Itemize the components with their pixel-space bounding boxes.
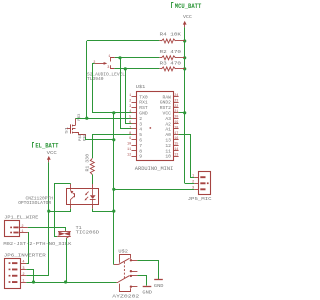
svg-text:OPTOISOLATOR: OPTOISOLATOR (18, 200, 51, 206)
svg-text:1: 1 (192, 175, 194, 179)
svg-text:TL3940: TL3940 (87, 76, 104, 82)
wire frame vertical (R4 net) (86, 41, 88, 118)
vcc symbol (MCU_BATT) (183, 21, 187, 27)
svg-text:3: 3 (107, 66, 109, 70)
svg-text:8: 8 (129, 132, 131, 136)
svg-text:A2: A2 (165, 121, 171, 127)
svg-text:4: 4 (129, 110, 131, 114)
label M02-JST-2-PTH-NO_SILK (3, 241, 71, 247)
svg-text:TX0: TX0 (139, 94, 148, 100)
wire bottom net (JP6 pin1 to switch) (26, 282, 116, 284)
svg-text:23: 23 (174, 99, 178, 103)
svg-text:2: 2 (93, 61, 95, 65)
svg-text:3: 3 (129, 105, 131, 109)
junction pot3/R3 net (124, 67, 127, 70)
svg-text:GND: GND (154, 283, 164, 289)
svg-text:P$1: P$1 (78, 134, 82, 141)
svg-text:RX1: RX1 (139, 100, 148, 106)
wire triac gate down (66, 238, 68, 282)
svg-text:R1 330: R1 330 (85, 154, 91, 172)
svg-text:RST2: RST2 (160, 105, 171, 111)
triac T1 TIC206D (57, 225, 99, 239)
svg-text:13: 13 (174, 153, 178, 157)
trimpot S2 AUDIO_LEVEL TL3940 (87, 55, 125, 82)
svg-text:R2 470: R2 470 (160, 49, 182, 55)
junction EL_BATT/opto-emitter (47, 210, 50, 213)
junction GND/mic (112, 188, 115, 191)
svg-text:JP1_EL_WIRE: JP1_EL_WIRE (4, 215, 38, 221)
svg-text:6: 6 (129, 121, 131, 125)
wire source to GND net (86, 137, 114, 140)
svg-text:4: 4 (22, 261, 24, 265)
svg-text:VCC: VCC (47, 150, 58, 156)
svg-text:21: 21 (174, 110, 178, 114)
wire VCC to U$1 VCC pin (179, 112, 185, 114)
svg-text:3: 3 (192, 187, 194, 191)
wire U$1 pin5 to R1 top (93, 135, 132, 159)
svg-text:3: 3 (22, 267, 24, 271)
svg-text:JP5_MIC: JP5_MIC (188, 196, 212, 202)
wire opto collector to triac MT1 (55, 184, 71, 237)
svg-text:9: 9 (129, 137, 131, 141)
svg-text:24: 24 (174, 94, 178, 98)
wire pot wiper (92, 63, 95, 65)
svg-text:A3: A3 (165, 116, 171, 122)
wire R4 left to frame (87, 40, 160, 42)
resistor R4 10K (159, 32, 184, 43)
JP6 pins (9, 261, 27, 284)
svg-text:RST: RST (139, 105, 148, 111)
wire pot pin1 net to U$1 pin 4 (121, 58, 132, 129)
resistor R3 470 (159, 61, 184, 71)
power flag VCC (EL) (47, 150, 58, 156)
svg-text:2: 2 (129, 99, 131, 103)
ground GND 1 (154, 280, 164, 290)
junction GND/opto-cathode (112, 210, 115, 213)
svg-text:2: 2 (192, 181, 194, 185)
junction VCC/R4 (183, 39, 186, 42)
wire opto emitter to EL_BATT (49, 209, 71, 212)
svg-text:VCC: VCC (183, 14, 192, 20)
junction GND/mosfet-source (112, 138, 115, 141)
svg-text:2: 2 (21, 225, 23, 229)
svg-text:7: 7 (139, 143, 142, 149)
wire R3 row (114, 68, 159, 70)
wire GND net to JP5 pin3 (114, 189, 195, 191)
svg-text:M02-JST-2-PTH-NO_SILK: M02-JST-2-PTH-NO_SILK (3, 241, 71, 247)
wire switch to GND 2 (137, 276, 146, 286)
wire U$1 A0 to JP5 pin1 (179, 135, 195, 178)
svg-text:A1: A1 (165, 127, 171, 133)
svg-text:15: 15 (174, 143, 178, 147)
pin opto anode stub (92, 184, 94, 188)
vcc symbol (EL_BATT) (47, 156, 51, 162)
net label MCU_BATT (172, 3, 202, 11)
svg-text:10: 10 (127, 143, 131, 147)
svg-text:19: 19 (174, 121, 178, 125)
wire VCC to JP5 pin2 (185, 183, 195, 185)
svg-text:12: 12 (165, 143, 171, 149)
junction VCC/R2 (183, 56, 186, 59)
svg-text:VCC: VCC (163, 111, 172, 117)
svg-text:GND2: GND2 (160, 100, 171, 106)
junction pin3/bottom wire (32, 280, 35, 283)
wire JP1 pin2 to triac MT2 (28, 228, 66, 231)
wire drain to U$1 pin 2 (76, 118, 132, 120)
svg-text:GND: GND (139, 111, 148, 117)
svg-text:8: 8 (139, 148, 142, 154)
connector JP6 INVERTER (4, 253, 46, 289)
svg-text:22: 22 (174, 105, 178, 109)
svg-text:7: 7 (129, 126, 131, 130)
pin opto emitter stub (70, 205, 72, 209)
wire GND net vertical (113, 113, 115, 265)
svg-text:18: 18 (174, 126, 178, 130)
resistor R2 470 (159, 49, 184, 60)
pin opto collector stub (70, 184, 72, 189)
svg-text:RAW: RAW (163, 94, 172, 100)
connector JP5 MIC (188, 172, 212, 203)
junction GND net top (112, 111, 115, 114)
wire EL_BATT to JP6 pin2 (26, 275, 49, 277)
svg-text:1: 1 (108, 55, 110, 59)
svg-text:P$3: P$3 (77, 114, 81, 121)
svg-text:11: 11 (127, 148, 131, 152)
ground GND 2 (142, 287, 152, 296)
connector JP1 EL_WIRE (4, 215, 38, 237)
svg-text:3: 3 (139, 121, 142, 127)
svg-text:20: 20 (174, 116, 178, 120)
svg-text:16: 16 (174, 137, 178, 141)
svg-text:U$1: U$1 (136, 84, 146, 90)
resistor R1 330 (85, 154, 95, 184)
svg-text:TIC206D: TIC206D (76, 230, 100, 236)
junction gate/bottom net (64, 280, 67, 283)
switch U$2 AYZ0202 (112, 249, 139, 300)
junction VCC/chip-VCC-pin (183, 111, 186, 114)
svg-text:R4 10K: R4 10K (160, 32, 182, 38)
transistor S1 (MOSFET) (66, 114, 87, 141)
svg-text:S1: S1 (66, 126, 70, 134)
svg-text:10: 10 (165, 154, 171, 160)
wire JP6 pin3 jog (26, 270, 33, 283)
svg-text:A0: A0 (165, 132, 171, 138)
optoisolator CNZ1120PTH (18, 188, 98, 206)
svg-text:2: 2 (139, 116, 142, 122)
svg-text:17: 17 (174, 132, 178, 136)
svg-text:9: 9 (139, 154, 142, 160)
junction drain/R4-frame (85, 117, 88, 120)
svg-text:GND: GND (142, 289, 152, 295)
svg-text:5: 5 (129, 116, 131, 120)
svg-text:EL_BATT: EL_BATT (35, 143, 58, 150)
wire VCC rail vertical (184, 27, 186, 183)
wire R1 bottom to opto anode (92, 183, 94, 186)
svg-text:R3 470: R3 470 (160, 61, 182, 67)
pin opto cathode stub (92, 205, 94, 209)
svg-text:U$2: U$2 (118, 249, 128, 255)
svg-text:2: 2 (22, 273, 24, 277)
svg-text:ARDUINO_MINI: ARDUINO_MINI (135, 166, 174, 172)
svg-text:12: 12 (127, 153, 131, 157)
svg-text:14: 14 (174, 148, 178, 152)
wire opto cathode to GND net (93, 209, 114, 212)
svg-text:MCU_BATT: MCU_BATT (175, 3, 202, 10)
power flag VCC (MCU) (183, 14, 192, 20)
svg-text:4: 4 (139, 127, 142, 133)
net label EL_BATT (33, 143, 59, 150)
svg-text:6: 6 (139, 138, 142, 144)
wire wiper down to GND row (93, 63, 132, 112)
wire pot pin3 net to U$1 pin 3 (126, 69, 132, 124)
wire EL_BATT vertical (48, 162, 50, 276)
wire R2 row (115, 57, 160, 59)
junction pot1/R2 net (118, 56, 121, 59)
svg-text:13: 13 (165, 138, 171, 144)
svg-text:AYZ0202: AYZ0202 (112, 294, 139, 300)
svg-text:1: 1 (129, 94, 131, 98)
wire JP1 pin1 to JP6 pin4 (26, 233, 28, 264)
wire switch to GND 1 (137, 261, 158, 280)
svg-text:11: 11 (165, 148, 171, 154)
svg-text:5: 5 (139, 132, 142, 138)
op-amp U1 / IC U$1 ARDUINO_MINI (127, 84, 179, 172)
svg-text:1: 1 (22, 280, 24, 284)
svg-text:JP6_INVERTER: JP6_INVERTER (4, 253, 46, 259)
junction VCC/R3 (183, 67, 186, 70)
